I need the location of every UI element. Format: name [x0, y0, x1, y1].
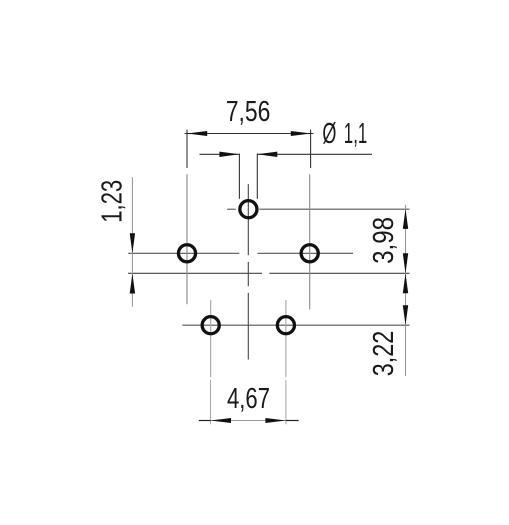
svg-text:Ø: Ø	[322, 118, 336, 150]
dimension 4,67: right arrow	[265, 418, 286, 423]
svg-text:1,1: 1,1	[344, 118, 368, 150]
svg-text:7,56: 7,56	[226, 96, 271, 128]
dimension 7,56: left arrow	[187, 131, 207, 136]
diameter dimension edge extension lines	[200, 154, 373, 199]
svg-text:3,22: 3,22	[368, 331, 400, 377]
dimension 3,98: top arrow pointing up	[403, 209, 408, 229]
dimension 1,23: lower arrow pointing up	[130, 274, 135, 294]
dimension 4,67: dimension line	[211, 420, 286, 422]
vertical centerline hole bottom-left	[210, 300, 212, 377]
dimension 3,22: top arrow pointing up	[403, 273, 408, 293]
dimension 4,67: extension lines	[211, 380, 286, 424]
right dimension line (3,98 / 3,22)	[405, 205, 407, 376]
vertical centerline hole right	[309, 174, 311, 309]
vertical centerline hole left	[186, 174, 188, 304]
top hole horizontal centerline	[227, 208, 409, 210]
dimension 7,56: right arrow	[291, 131, 311, 136]
svg-text:1,23: 1,23	[97, 180, 129, 223]
bottom holes horizontal centerline	[182, 324, 409, 326]
hole top center	[240, 201, 257, 218]
dimension 4,67: left arrow tail	[199, 420, 211, 422]
hole bottom left	[202, 317, 219, 334]
diameter arrow pointing left	[257, 152, 277, 157]
dimension 7,56: extension lines	[185, 130, 314, 168]
svg-text:3,98: 3,98	[368, 217, 400, 264]
main horizontal centerline	[128, 272, 410, 274]
diameter arrow pointing right	[219, 152, 239, 157]
dimension 1,23: upper arrow pointing down	[130, 233, 135, 253]
dimension 7,56: dimension line	[185, 133, 314, 135]
dimension 3,22: bottom arrow pointing down	[403, 305, 408, 325]
dimension 1,23: dimension line	[131, 177, 133, 306]
svg-text:4,67: 4,67	[227, 383, 270, 415]
hole bottom right	[277, 317, 294, 334]
diameter leader line right tail	[257, 153, 372, 155]
dimension 3,98: bottom arrow pointing down	[403, 253, 408, 273]
centerline horizontal through middle holes (pitch line)	[128, 252, 353, 254]
vertical centerline hole bottom-right	[285, 300, 287, 377]
diameter leader line left tail	[200, 153, 240, 155]
dimension 4,67: right arrow tail	[286, 420, 299, 422]
hole middle right	[301, 245, 318, 262]
dimension 4,67: left arrow	[211, 418, 232, 423]
hole middle left	[178, 245, 195, 262]
main vertical centerline	[247, 184, 249, 359]
